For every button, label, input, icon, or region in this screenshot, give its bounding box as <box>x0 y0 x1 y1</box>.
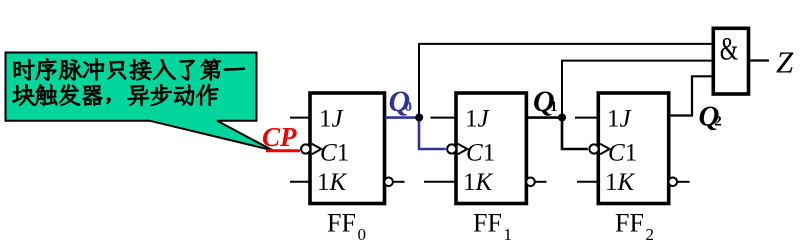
FF0 clock bubble <box>301 144 310 153</box>
svg-text:FF: FF <box>327 209 356 238</box>
callout text line 2: 块触发器，异步动作 <box>12 84 218 106</box>
node Q0 junction <box>415 114 423 122</box>
svg-text:1J: 1J <box>465 106 491 133</box>
svg-text:1J: 1J <box>607 106 633 133</box>
FF1 1J input stub <box>431 117 456 119</box>
FF2 clock bubble <box>589 144 598 153</box>
wire Z output <box>750 59 769 61</box>
FF1 clock bubble <box>447 144 456 153</box>
svg-text:FF: FF <box>473 209 502 238</box>
FF1 Qbar bubble <box>526 178 535 187</box>
svg-text:2: 2 <box>714 114 722 130</box>
svg-text:1K: 1K <box>463 169 494 196</box>
FF1 1K input stub <box>424 181 455 183</box>
callout text line 1: 时序脉冲只接入了第一 <box>14 58 245 80</box>
FF2 clock triangle <box>600 144 610 155</box>
svg-text:1K: 1K <box>605 169 636 196</box>
FF0 Qbar stub <box>393 181 405 183</box>
flip-flop FF2 box <box>598 93 668 204</box>
FF2 1J input stub <box>575 117 598 119</box>
wire Q1 to AND gate (second rail) <box>562 61 712 118</box>
svg-text:1K: 1K <box>317 169 348 196</box>
svg-text:CP: CP <box>262 122 297 152</box>
flip-flop FF0 box <box>310 93 385 204</box>
svg-text:C1: C1 <box>320 140 349 167</box>
wire Q1 <box>526 118 588 149</box>
FF2 Qbar stub <box>677 181 689 183</box>
svg-text:1: 1 <box>504 225 513 244</box>
flip-flop FF1 box <box>456 93 526 204</box>
svg-text:FF: FF <box>615 209 644 238</box>
wire Q0 to AND gate (top rail) <box>419 44 712 118</box>
svg-text:0: 0 <box>358 225 367 244</box>
FF0 clock triangle <box>312 144 322 155</box>
AND gate U1 box <box>713 28 748 94</box>
svg-text:&: & <box>720 31 738 68</box>
svg-text:0: 0 <box>405 99 413 115</box>
svg-text:1: 1 <box>550 99 558 115</box>
wire CP (red) <box>266 149 300 152</box>
svg-text:1J: 1J <box>319 106 345 133</box>
wire Q2 to AND gate <box>669 76 712 115</box>
FF2 Qbar bubble <box>669 178 678 187</box>
FF0 1K input stub <box>290 181 309 183</box>
wire Q0 (blue) <box>385 118 446 149</box>
svg-text:Z: Z <box>776 45 794 80</box>
FF1 clock triangle <box>458 144 468 155</box>
svg-text:C1: C1 <box>466 140 495 167</box>
svg-text:2: 2 <box>646 225 655 244</box>
FF2 1K input stub <box>577 181 598 183</box>
FF1 Qbar stub <box>535 181 547 183</box>
FF0 Qbar bubble <box>384 178 393 187</box>
FF0 1J input stub <box>290 117 309 119</box>
svg-text:C1: C1 <box>608 140 637 167</box>
node Q1 junction <box>558 114 566 122</box>
callout bubble <box>6 53 273 151</box>
